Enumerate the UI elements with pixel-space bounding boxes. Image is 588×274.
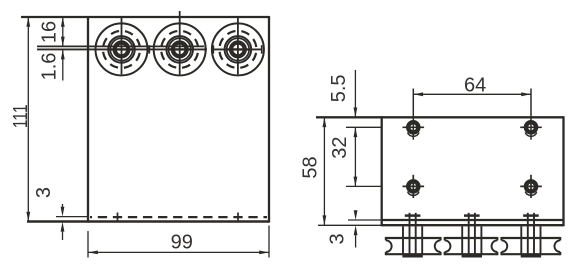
right view base plate line <box>382 224 564 226</box>
terminal 1 (bushing top view) <box>96 17 148 75</box>
dimension 16 arrow bottom <box>61 37 65 47</box>
svg-text:32: 32 <box>329 136 351 158</box>
dimension 3r upper arrow <box>354 210 358 220</box>
right ext hole row bottom <box>346 185 382 187</box>
svg-text:3: 3 <box>33 187 55 198</box>
svg-text:111: 111 <box>10 104 32 128</box>
left view right edge <box>268 16 270 223</box>
dimension 99 line <box>88 251 269 253</box>
dimension 16 line <box>62 17 64 46</box>
dimension 1.6 tail line <box>62 50 64 81</box>
right ext hole row top <box>346 126 382 128</box>
dimension 3 lower arrow <box>61 222 65 232</box>
dimension 32 arrow top <box>354 127 358 137</box>
left view left edge <box>87 16 89 223</box>
right ext bottom edge left <box>348 219 382 221</box>
right ext base plate left <box>318 224 382 226</box>
right view bottom edge <box>382 219 564 221</box>
dimension 58 line <box>323 117 325 225</box>
svg-text:1.6: 1.6 <box>38 53 60 81</box>
right view top edge with extension <box>316 116 564 118</box>
dimension 58 arrow top <box>323 117 327 127</box>
dimension 3 upper arrow <box>61 207 65 217</box>
dimension 3r upper tail <box>355 211 357 214</box>
dimension 5.5 arrow <box>354 108 358 118</box>
dimension 16 arrow top <box>61 17 65 27</box>
dimension 99 arrow left <box>88 251 98 255</box>
busbar strip segment 1 <box>386 237 441 255</box>
dimension 64 arrow right <box>521 92 531 96</box>
dimension 5.5 line <box>354 70 356 117</box>
centreline tick 3 <box>212 45 214 53</box>
dimension 111 arrow top <box>26 17 30 27</box>
dimension 32 line <box>354 127 356 186</box>
svg-text:5.5: 5.5 <box>328 74 350 102</box>
svg-text:16: 16 <box>38 21 60 43</box>
mounting hole M3 bottom-left <box>403 175 425 198</box>
dimension 99 ext left <box>87 231 89 258</box>
svg-text:64: 64 <box>464 74 486 96</box>
dimension 64 line <box>413 93 531 95</box>
terminal stud top line <box>37 45 204 47</box>
centreline tick 1 <box>148 45 150 53</box>
terminal clamp unit 2 <box>462 213 482 256</box>
left view bottom edge <box>27 220 269 223</box>
dimension 3 extension line <box>56 216 88 218</box>
dimension 3 upper tail <box>62 204 64 207</box>
dimension 58 arrow bottom <box>323 215 327 225</box>
terminal clamp unit 3 <box>521 213 541 256</box>
busbar strip segment 2 <box>445 237 498 255</box>
left fastener tick 1 <box>117 213 119 222</box>
dimension 111 arrow bottom <box>26 212 30 222</box>
mounting hole M2 top-right <box>520 89 542 140</box>
terminal clamp unit 1 <box>402 213 422 256</box>
terminal 2 (bushing top view) <box>154 11 206 75</box>
dimension 3r lower arrow <box>354 225 358 235</box>
dimension 3r lower tail <box>355 235 357 247</box>
terminals horizontal centreline seg2 <box>212 48 263 50</box>
dimension 3 lower tail <box>62 232 64 240</box>
svg-text:3: 3 <box>326 233 348 244</box>
busbar strip segment 3 <box>501 237 560 255</box>
svg-text:58: 58 <box>300 156 322 178</box>
dimension 99 arrow right <box>259 251 269 255</box>
mounting hole M4 bottom-right <box>520 175 542 198</box>
dimension 99 ext right <box>268 226 270 258</box>
svg-text:99: 99 <box>171 231 193 253</box>
centreline tick 4 <box>261 45 263 53</box>
right view left edge <box>381 116 383 226</box>
left view inner bottom dashed line <box>90 216 267 218</box>
right view right edge <box>562 116 564 226</box>
dimension 32 arrow bottom <box>354 177 358 187</box>
left view top edge with extension <box>21 16 269 18</box>
centreline tick 2 <box>204 45 206 53</box>
mounting hole M1 top-left <box>403 89 425 140</box>
left fastener tick 2 <box>237 213 239 222</box>
terminal 3 (bushing top view) <box>212 17 264 75</box>
dimension 1.6 arrow <box>61 50 65 60</box>
terminals horizontal centreline seg1 <box>37 48 207 50</box>
dimension 111 line <box>27 17 29 222</box>
dimension 64 arrow left <box>413 92 423 96</box>
